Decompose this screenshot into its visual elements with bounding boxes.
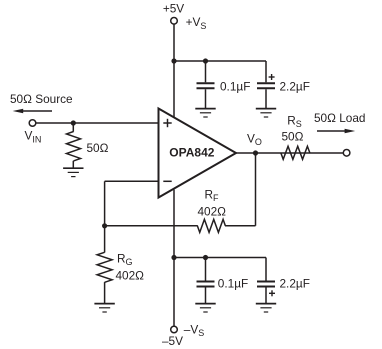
svg-text:402Ω: 402Ω (198, 205, 227, 219)
svg-text:0.1µF: 0.1µF (218, 277, 248, 291)
svg-text:–5V: –5V (162, 334, 183, 348)
svg-text:+5V: +5V (163, 1, 184, 15)
wire feedback vertical (255, 153, 257, 226)
wire +Vs vertical (173, 24, 175, 118)
wire bottom 0.1uF lead (205, 258, 207, 281)
ground top 2.2uF (256, 109, 276, 117)
op-amp U1 OPA842 (159, 109, 237, 198)
wire -Vs rail (174, 257, 266, 259)
wire feedback right (225, 225, 256, 227)
node +Vs rail junction (171, 58, 176, 63)
node bottom 0.1uF junction (203, 255, 208, 260)
resistor 50 ohm input (67, 132, 81, 161)
wire bottom 2.2uF lower lead (265, 288, 267, 304)
capacitor C2 2.2uF top (257, 83, 275, 88)
node input junction (71, 120, 76, 125)
resistor RS 50 ohm (281, 146, 310, 159)
svg-text:50Ω Source: 50Ω Source (10, 92, 73, 106)
terminal Vin (29, 120, 36, 127)
wire +Vs rail (174, 60, 266, 62)
terminal +Vs (171, 18, 178, 25)
node -Vs rail junction (171, 255, 176, 260)
arrow source (left) (13, 109, 52, 114)
capacitor C4 2.2uF bottom (257, 282, 275, 287)
svg-text:50Ω: 50Ω (87, 141, 109, 155)
wire top 0.1uF lower lead (205, 89, 207, 108)
svg-text:0.1µF: 0.1µF (220, 80, 250, 94)
ground bottom 0.1uF (195, 304, 215, 312)
ground RG (94, 304, 114, 312)
node Vo junction (253, 150, 258, 155)
ground top 0.1uF (195, 109, 215, 117)
svg-text:50Ω: 50Ω (282, 130, 304, 144)
svg-text:2.2µF: 2.2µF (280, 277, 310, 291)
wire 50 ohm top lead (72, 123, 74, 132)
svg-text:OPA842: OPA842 (169, 146, 214, 160)
wire output (236, 152, 343, 154)
wire -Vs vertical (173, 190, 175, 326)
label + polarity bottom 2.2uF (269, 290, 275, 296)
arrow load (right) (317, 129, 355, 134)
terminal load (343, 150, 350, 157)
resistor RF 402 ohm (197, 219, 225, 232)
wire RG bottom lead (104, 282, 106, 303)
wire RG top lead (104, 226, 106, 253)
wire top 0.1uF lead (205, 61, 207, 82)
wire feedback left (105, 225, 198, 227)
svg-text:402Ω: 402Ω (116, 269, 145, 283)
label - input (163, 180, 171, 182)
wire input (36, 122, 159, 124)
capacitor C3 0.1uF bottom (197, 282, 215, 287)
label + polarity top 2.2uF (269, 74, 275, 80)
wire top 2.2uF lead (265, 61, 267, 82)
capacitor C1 0.1uF top (197, 83, 215, 88)
wire 50 ohm bottom lead (72, 161, 74, 168)
terminal -Vs (171, 326, 178, 333)
wire top 2.2uF lower lead (265, 89, 267, 108)
wire inverting input (105, 180, 159, 182)
wire inverting down (104, 181, 106, 226)
resistor RG 402 ohm (97, 252, 112, 282)
ground input 50 ohm (63, 168, 83, 176)
node top 0.1uF junction (203, 58, 208, 63)
svg-text:50Ω Load: 50Ω Load (314, 111, 365, 125)
wire bottom 0.1uF lower lead (205, 288, 207, 304)
wire bottom 2.2uF lead (265, 258, 267, 281)
ground bottom 2.2uF (256, 304, 276, 312)
svg-text:2.2µF: 2.2µF (280, 80, 310, 94)
node feedback junction (102, 223, 107, 228)
label + input (163, 119, 171, 127)
